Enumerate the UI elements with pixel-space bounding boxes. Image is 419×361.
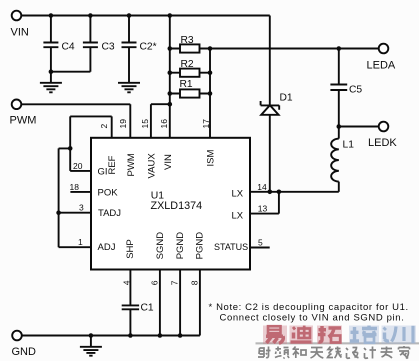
svg-text:VIN: VIN (11, 27, 29, 39)
svg-text:* Note: C2 is decoupling capac: * Note: C2 is decoupling capacitor for U… (209, 302, 409, 313)
svg-text:C5: C5 (349, 85, 362, 96)
svg-text:13: 13 (258, 204, 268, 214)
svg-text:C3: C3 (102, 41, 115, 52)
svg-text:STATUS: STATUS (214, 242, 248, 252)
svg-text:LX: LX (232, 189, 244, 200)
svg-text:17: 17 (201, 119, 211, 129)
svg-text:ADJ: ADJ (98, 242, 116, 253)
svg-text:LEDK: LEDK (368, 137, 397, 149)
svg-text:REF: REF (107, 155, 118, 174)
svg-text:18: 18 (70, 182, 80, 192)
svg-text:R2: R2 (181, 59, 194, 70)
svg-text:20: 20 (73, 161, 83, 171)
svg-text:GI: GI (98, 166, 108, 177)
svg-text:ZXLD1374: ZXLD1374 (151, 200, 203, 212)
svg-text:2: 2 (99, 124, 109, 129)
svg-text:SGND: SGND (155, 232, 166, 260)
svg-text:VIN: VIN (163, 154, 174, 170)
svg-text:Connect closely to VIN and SGN: Connect closely to VIN and SGND pin. (220, 312, 405, 323)
svg-text:PWM: PWM (10, 115, 37, 127)
svg-text:PWM: PWM (126, 153, 137, 176)
svg-text:VAUX: VAUX (146, 153, 157, 179)
svg-text:7: 7 (170, 280, 180, 285)
svg-text:POK: POK (98, 187, 119, 198)
svg-text:3: 3 (79, 203, 84, 213)
svg-text:16: 16 (159, 119, 169, 129)
svg-text:4: 4 (121, 280, 131, 285)
svg-text:1: 1 (78, 237, 83, 247)
svg-text:TADJ: TADJ (98, 208, 121, 219)
svg-text:GND: GND (12, 346, 37, 358)
svg-text:19: 19 (118, 119, 128, 129)
svg-text:PGND: PGND (175, 232, 186, 260)
svg-text:C4: C4 (62, 41, 75, 52)
svg-text:SHP: SHP (125, 239, 136, 259)
svg-text:C2*: C2* (140, 41, 157, 52)
svg-text:L1: L1 (343, 140, 355, 151)
svg-text:R3: R3 (181, 35, 194, 46)
svg-text:14: 14 (257, 182, 267, 192)
svg-text:PGND: PGND (195, 232, 206, 260)
svg-text:15: 15 (140, 119, 150, 129)
svg-text:6: 6 (149, 280, 159, 285)
svg-text:5: 5 (258, 238, 263, 248)
svg-text:R1: R1 (180, 79, 193, 90)
svg-text:D1: D1 (280, 93, 293, 104)
svg-text:LX: LX (232, 210, 244, 221)
svg-text:C1: C1 (141, 303, 154, 314)
svg-text:LEDA: LEDA (367, 60, 396, 72)
svg-text:8: 8 (189, 280, 199, 285)
svg-text:ISM: ISM (206, 150, 217, 167)
